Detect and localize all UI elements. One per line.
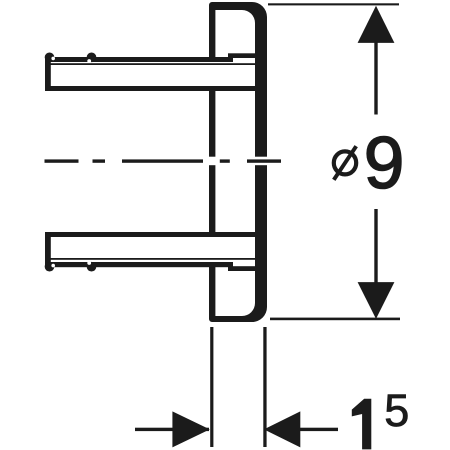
centerline dash 3 bbox=[247, 159, 281, 162]
centerline dot 1 bbox=[93, 159, 106, 162]
top snap arm upper edge bbox=[46, 57, 233, 62]
diameter dimension line lower segment bbox=[374, 209, 377, 283]
bottom snap arm lower edge bbox=[46, 262, 233, 267]
diameter dimension arrow up bbox=[358, 6, 395, 43]
top snap arm left end cap bbox=[45, 56, 51, 91]
white gap in plate right edge at centerline crossing bbox=[254, 157, 269, 166]
bottom snap arm barb 2 notch bbox=[87, 261, 91, 265]
top snap arm inner thin line bbox=[51, 63, 256, 65]
top snap arm upper edge stepped segment bbox=[228, 53, 256, 58]
bottom snap arm lower edge stepped segment bbox=[228, 266, 256, 271]
centerline dot 2 bbox=[220, 159, 230, 162]
diameter dimension arrow down bbox=[358, 282, 395, 319]
diameter symbol circle bbox=[334, 151, 356, 174]
bottom snap arm inner thin line bbox=[51, 258, 256, 260]
top snap arm barb 2 notch bbox=[87, 59, 91, 63]
bottom snap arm left end cap bbox=[45, 232, 51, 268]
bottom snap arm barb 1 notch bbox=[51, 264, 55, 268]
width dimension right extension line bbox=[263, 327, 266, 447]
diameter dimension top extension line bbox=[268, 3, 399, 5]
top snap arm barb 1 bbox=[45, 53, 55, 63]
width dimension left extension line bbox=[210, 327, 213, 447]
top snap arm lower edge bbox=[46, 86, 256, 91]
top snap arm barb 1 notch bbox=[51, 57, 55, 61]
bottom snap arm white body bbox=[46, 232, 255, 267]
width dimension arrow right bbox=[172, 411, 209, 447]
centerline dash 1 bbox=[45, 159, 79, 162]
white gap in plate left edge at centerline crossing bbox=[208, 157, 218, 166]
svg-text:9: 9 bbox=[364, 123, 405, 204]
top snap arm white body bbox=[46, 57, 255, 91]
diameter symbol slash bbox=[334, 146, 356, 180]
diameter dimension bottom extension line bbox=[270, 318, 400, 321]
width dimension arrow left bbox=[264, 411, 300, 447]
width dimension value 1 bbox=[352, 399, 372, 450]
flange plate body (cross-section outline) bbox=[209, 2, 267, 322]
bottom snap arm upper edge bbox=[46, 232, 256, 237]
top snap arm barb 2 bbox=[87, 53, 97, 63]
diameter dimension line upper segment bbox=[374, 42, 377, 115]
width dimension line right segment bbox=[300, 428, 339, 431]
width dimension line left segment bbox=[135, 428, 209, 431]
bottom snap arm barb 2 bbox=[87, 262, 97, 272]
svg-text:5: 5 bbox=[384, 385, 409, 436]
centerline dash 2 bbox=[122, 159, 203, 162]
bottom snap arm barb 1 bbox=[45, 262, 55, 272]
